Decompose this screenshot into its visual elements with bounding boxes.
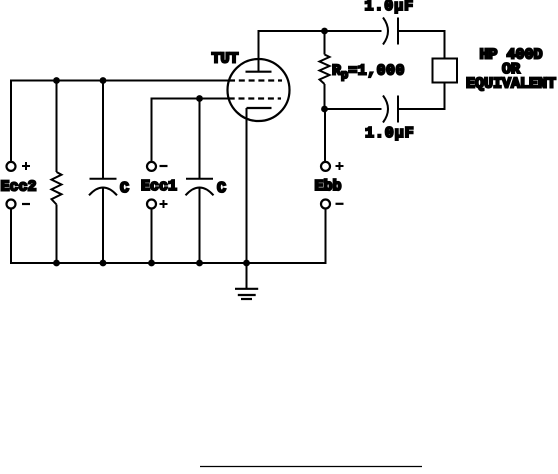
divider line [200, 466, 422, 468]
tube TUT envelope [228, 59, 290, 121]
wire Ebb column upper [324, 109, 326, 162]
junction top bus / C1 column [100, 77, 107, 84]
terminal Ecc1 - [147, 162, 168, 171]
capacitor C4 (1.0uF bottom) [383, 96, 398, 123]
terminal Ecc2 - [7, 200, 31, 209]
junction bottom bus / cathode column [243, 260, 250, 267]
svg-text:Ecc1: Ecc1 [141, 178, 177, 195]
junction bottom bus / C1 column [100, 260, 107, 267]
resistor R [52, 172, 62, 205]
svg-text:C: C [217, 180, 226, 197]
wire resistor R bottom lead [56, 205, 58, 265]
terminal Ecc2 + [7, 162, 31, 171]
capacitor C1 [89, 179, 117, 196]
tube plate [246, 71, 272, 73]
capacitor C2 [186, 179, 214, 196]
wire resistor Rp top lead [324, 31, 326, 55]
wire bottom bus (ground net) [10, 262, 327, 264]
wire right column upper [444, 30, 446, 59]
voltmeter HP 400D box [433, 59, 458, 83]
svg-text:Rp=1,000: Rp=1,000 [332, 63, 405, 83]
junction top node / Rp [321, 28, 328, 35]
tube grid 1 (dashed) [229, 79, 282, 81]
svg-text:EQUIVALENT: EQUIVALENT [466, 75, 556, 92]
ground [235, 263, 258, 299]
tube grid 2 (dashed) [229, 97, 281, 99]
svg-text:1.0µF: 1.0µF [365, 125, 415, 142]
wire capacitor C1 top lead [102, 81, 104, 179]
wire capacitor C2 top lead [199, 99, 201, 179]
junction bottom bus / C2 column [196, 260, 203, 267]
resistor Rp [320, 55, 330, 85]
capacitor C3 (1.0uF top) [383, 18, 398, 45]
wire capacitor C2 bottom lead [199, 188, 201, 265]
terminal Ebb - [321, 200, 344, 209]
junction bottom bus / R column [53, 260, 60, 267]
junction grid-2 bus / C2 column [196, 95, 203, 102]
wire capacitor C1 bottom lead [102, 188, 104, 265]
wire resistor R top lead [56, 81, 58, 173]
wire right column lower [444, 83, 446, 111]
wire top bus (grid-1 net) [10, 80, 229, 82]
svg-text:C: C [120, 180, 129, 197]
wire C4 to right column [398, 108, 446, 110]
wire C3 to right column [398, 30, 446, 32]
wire Ecc1 column lower [151, 209, 153, 264]
wire plate lead to top node [259, 31, 325, 72]
label HP 400D OR EQUIVALENT [466, 47, 556, 93]
wire cathode lead [246, 108, 248, 264]
junction bottom bus / Ecc1 column [148, 260, 155, 267]
svg-text:TUT: TUT [212, 51, 239, 68]
wire grid-2 bus [152, 99, 229, 162]
wire Ecc2 column upper [10, 80, 12, 162]
wire Ebb column lower [325, 209, 327, 264]
wire C4 to Rp node [325, 108, 382, 110]
terminal Ecc1 + [147, 200, 168, 209]
wire Ecc2 column lower [10, 209, 12, 264]
junction Rp / Ebb node [321, 106, 328, 113]
svg-text:Ebb: Ebb [315, 178, 342, 195]
svg-text:1.0µF: 1.0µF [365, 0, 415, 15]
tube cathode [247, 107, 272, 109]
terminal Ebb + [321, 162, 344, 171]
wire top node to C3 [325, 30, 382, 32]
junction top bus / R column [53, 77, 60, 84]
wire resistor Rp bottom lead [324, 84, 326, 109]
svg-text:Ecc2: Ecc2 [1, 179, 37, 196]
